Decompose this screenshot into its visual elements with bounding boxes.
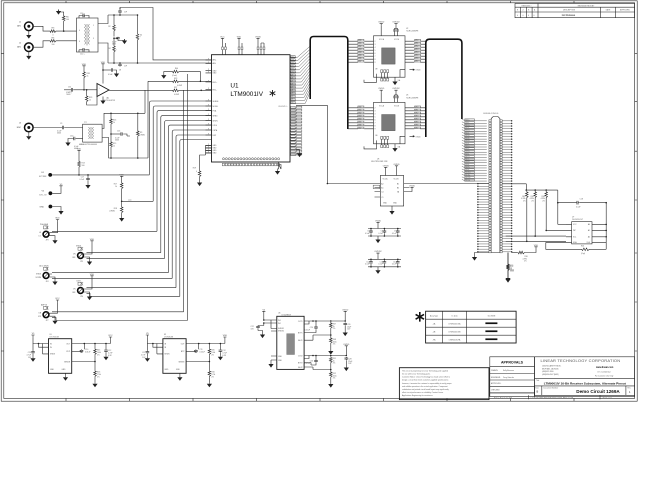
svg-text:3: 3 <box>375 44 376 46</box>
wire bundle jumpers to U1 control pins <box>149 74 211 321</box>
svg-text:Customer Notice: Linear Techno: Customer Notice: Linear Technology has m… <box>402 376 450 379</box>
svg-text:2%: 2% <box>211 376 214 378</box>
svg-text:(Opt): (Opt) <box>581 252 585 255</box>
capacitor C30 to ground <box>76 138 83 140</box>
svg-text:MILPITAS, CA 95035: MILPITAS, CA 95035 <box>542 367 559 370</box>
svg-text:0.1uF: 0.1uF <box>365 233 369 235</box>
capacitor C9 coupling <box>62 126 65 130</box>
ground for C22 <box>258 331 263 334</box>
resistor divider upper for U9 <box>209 343 211 345</box>
svg-text:VDD: VDD <box>55 218 60 220</box>
svg-text:VDD: VDD <box>237 36 242 38</box>
svg-text:100: 100 <box>82 165 85 167</box>
power flag for JP3 <box>56 220 59 222</box>
svg-text:OVDD: OVDD <box>378 88 385 90</box>
svg-text:U2: U2 <box>406 28 408 30</box>
svg-text:Document Number: Document Number <box>544 387 559 390</box>
approvals box <box>490 357 535 397</box>
wire OUT1 rail <box>313 320 331 322</box>
svg-text:JP6: JP6 <box>80 296 83 298</box>
output capacitor for U5 <box>105 344 107 350</box>
capacitor C6 <box>384 228 386 230</box>
bus wire U1 to buffers thick rounded <box>310 37 348 130</box>
svg-text:C8: C8 <box>119 70 121 72</box>
svg-text:ADJ2: ADJ2 <box>298 366 302 369</box>
svg-text:AIN: AIN <box>17 25 21 28</box>
svg-text:PGA GAIN: PGA GAIN <box>40 223 49 226</box>
output capacitor for U9 <box>219 344 221 350</box>
ground for U6 <box>268 363 273 368</box>
svg-text:for use with Linear Technology: for use with Linear Technology parts. <box>402 373 431 376</box>
disclaimer notice box <box>399 368 489 400</box>
svg-text:(Omit): (Omit) <box>172 74 177 77</box>
svg-text:1: 1 <box>93 25 94 27</box>
svg-text:A1: A1 <box>381 186 383 189</box>
svg-text:R2: R2 <box>108 26 110 28</box>
svg-text:VDD: VDD <box>120 174 125 176</box>
right pin stubs of U2 <box>405 39 421 62</box>
svg-text:8: 8 <box>375 125 376 127</box>
ground for output cap U5 <box>103 355 108 360</box>
wire J3 to C9 <box>33 127 61 129</box>
assembly option asterisk <box>416 312 424 322</box>
T2 output rails <box>102 113 148 158</box>
wire aux net 2 <box>52 277 172 279</box>
wire R6 to T1 <box>57 40 77 42</box>
capacitor C22 input <box>263 323 265 326</box>
svg-text:VCC: VCC <box>55 298 60 300</box>
svg-text:U6: U6 <box>278 313 280 315</box>
svg-text:0.1uF: 0.1uF <box>392 264 396 266</box>
svg-text:74LHC245MPR: 74LHC245MPR <box>406 31 419 33</box>
ground for C36 <box>114 72 119 77</box>
resistor R39 series ENC+ <box>148 80 172 82</box>
capacitor C17 <box>87 174 89 176</box>
capacitor C20 <box>343 323 347 326</box>
svg-text:9: 9 <box>375 62 376 64</box>
svg-text:DB7: DB7 <box>415 127 418 129</box>
svg-text:B1: B1 <box>397 183 399 185</box>
ground for U2 <box>394 77 396 80</box>
OE wire of U3 <box>364 140 377 149</box>
svg-text:LTM9001IV-PA: LTM9001IV-PA <box>449 339 461 342</box>
svg-text:0.1uF: 0.1uF <box>365 264 369 266</box>
power flag VDD for R38 <box>82 66 85 68</box>
bus join wires out of U3 right pins <box>420 108 426 129</box>
capacitor C31 input coupling <box>64 89 71 91</box>
turret E1 EXT REF <box>48 173 52 177</box>
turret V5 input power <box>49 191 53 195</box>
jumper JP6 DITH <box>72 280 87 298</box>
svg-text:VDD: VDD <box>534 245 539 247</box>
svg-text:0603: 0603 <box>115 140 119 142</box>
svg-text:SENSE: SENSE <box>178 362 185 364</box>
svg-text:LTM9001IV: LTM9001IV <box>230 91 263 98</box>
svg-text:(OMIT): (OMIT) <box>109 210 115 212</box>
svg-text:C9: C9 <box>60 123 62 125</box>
svg-text:OVDD: OVDD <box>255 36 262 38</box>
svg-text:2%: 2% <box>97 354 100 356</box>
revision history table <box>515 4 635 18</box>
wire R3 to T1 <box>57 30 77 32</box>
power flag VDD for R30 <box>534 247 537 249</box>
ground for cap row <box>377 267 379 269</box>
svg-text:ADJ1: ADJ1 <box>298 339 302 342</box>
wire J1 to R3 <box>33 26 49 31</box>
net label box on A2 wire <box>373 185 380 188</box>
svg-text:(408)432-1900: (408)432-1900 <box>542 371 554 373</box>
svg-text:3: 3 <box>375 110 376 112</box>
svg-text:OVDD: OVDD <box>416 136 422 138</box>
svg-text:0: 0 <box>517 15 518 17</box>
ground for cap row <box>377 236 379 238</box>
resistor divider lower for U9 <box>208 362 210 371</box>
svg-text:5: 5 <box>375 116 376 118</box>
power flag OVDD2 above U3 <box>394 90 397 92</box>
turret GND <box>49 205 53 209</box>
sheet outer border frame <box>1 1 637 401</box>
capacitor C1 <box>119 14 121 16</box>
resistor R16 <box>110 113 112 115</box>
svg-text:B: B <box>537 390 539 394</box>
svg-text:74LHC245MPR: 74LHC245MPR <box>406 97 419 99</box>
svg-text:2%: 2% <box>333 328 336 330</box>
svg-text:3.6V - 6V: 3.6V - 6V <box>39 194 47 196</box>
svg-text:ADC SHDN: ADC SHDN <box>39 264 49 267</box>
capacitor C13 <box>384 259 386 261</box>
capacitor C26 <box>315 356 317 360</box>
power flag V5 for U6 <box>262 311 265 313</box>
svg-text:Friday, August 27, 2021: Friday, August 27, 2021 <box>494 397 512 400</box>
svg-text:DA5: DA5 <box>358 54 361 57</box>
connector J4 left pad column <box>489 120 491 253</box>
IC U5 LDO regulator body <box>49 339 72 374</box>
bus peel wires into U2 left pins <box>348 41 358 62</box>
svg-text:0603: 0603 <box>67 94 71 96</box>
svg-text:0603: 0603 <box>57 133 61 135</box>
svg-text:DA5: DA5 <box>358 120 361 123</box>
wire CLKOUT net into U8 A2 <box>327 183 374 185</box>
input capacitor C23 for U5 <box>32 344 34 351</box>
IC U2 buffer 74LHC245 body <box>374 36 406 77</box>
svg-text:VCCB: VCCB <box>394 179 400 181</box>
svg-text:MULTIPLEXER #RIF: MULTIPLEXER #RIF <box>371 161 387 163</box>
power flags above U8 <box>384 167 387 169</box>
wire pull-up rail <box>526 189 558 191</box>
svg-text:6: 6 <box>375 53 376 55</box>
bus peel wires into U3 left pins <box>348 108 358 129</box>
svg-text:JP5: JP5 <box>80 261 83 263</box>
jumper JP5 SHDN <box>72 245 87 263</box>
wire aux net 4 <box>52 318 187 321</box>
ground for R48 <box>328 350 333 355</box>
svg-text:C16: C16 <box>117 131 120 133</box>
ground for J1 <box>26 34 31 39</box>
wire dither net <box>122 200 154 202</box>
svg-text:VDD: VDD <box>77 148 82 150</box>
U8 right pin stubs <box>404 184 410 192</box>
ground above R5 <box>56 10 61 15</box>
svg-text:DA6: DA6 <box>358 123 361 126</box>
ground for U1 right pins <box>296 150 300 152</box>
svg-text:Size: Size <box>535 388 538 390</box>
svg-text:9: 9 <box>375 128 376 130</box>
svg-text:OVDD2: OVDD2 <box>392 22 400 24</box>
ground for C21 <box>344 366 349 371</box>
svg-text:2%: 2% <box>333 378 336 380</box>
svg-text:DA0: DA0 <box>358 105 361 108</box>
resistor R63 pull-up <box>545 189 547 191</box>
ground for op-amp <box>102 97 104 100</box>
title block Linear Technology <box>490 357 635 400</box>
capacitor C14 <box>397 259 399 261</box>
U7 left pin stubs <box>566 224 572 242</box>
svg-text:1k: 1k <box>89 99 91 101</box>
svg-text:SHDN2: SHDN2 <box>278 331 284 333</box>
sheet inner border frame <box>4 3 635 399</box>
wire JP5 net to bundle <box>87 252 161 254</box>
svg-text:SCL: SCL <box>573 237 576 239</box>
svg-text:REVISION HISTORY: REVISION HISTORY <box>578 5 595 7</box>
svg-text:REVISION #: REVISION # <box>522 5 532 7</box>
svg-text:LT1763CS8: LT1763CS8 <box>164 337 173 339</box>
svg-text:2%: 2% <box>524 261 527 263</box>
ground for output cap U9 <box>218 355 223 360</box>
svg-text:OVDD: OVDD <box>342 309 349 311</box>
svg-text:GND: GND <box>39 207 44 209</box>
ground for R52 <box>328 383 333 388</box>
ground for U9 <box>177 376 182 381</box>
svg-text:EXT REF: EXT REF <box>39 176 46 178</box>
OVDD arrow pin of U3 <box>400 136 405 144</box>
IC U1 LTM9001IV body <box>212 55 291 162</box>
wire C1 top to U1 AIN+ <box>120 8 212 60</box>
wire ENC+ rail up to series resistor <box>144 90 146 113</box>
power flag V5 from turret <box>52 188 61 193</box>
svg-text:6: 6 <box>375 119 376 121</box>
svg-text:C18: C18 <box>580 199 583 201</box>
horizontal resistor R30 to VDD on J4 pin <box>512 252 517 254</box>
svg-text:2: 2 <box>375 41 376 43</box>
power flag for JP6 <box>90 276 93 278</box>
svg-text:0.1uF: 0.1uF <box>378 264 382 266</box>
svg-text:Demo Circuit 1269A: Demo Circuit 1269A <box>576 389 620 394</box>
capacitor C21 <box>345 357 349 360</box>
svg-text:SHDN: SHDN <box>50 354 56 356</box>
input capacitor C27 for U9 <box>146 344 148 351</box>
svg-text:DA7: DA7 <box>358 60 361 63</box>
svg-text:DA7: DA7 <box>358 126 361 129</box>
svg-text:1k: 1k <box>87 75 89 77</box>
svg-text:C4: C4 <box>381 191 383 193</box>
svg-text:DB1: DB1 <box>415 109 418 111</box>
svg-text:VCCA: VCCA <box>379 104 385 107</box>
OVDD arrow pin of U2 <box>400 70 405 78</box>
U7 right pin stubs <box>592 224 606 242</box>
ground for JP3 <box>52 236 55 239</box>
bottom pins of U2 <box>381 70 383 73</box>
resistor R18 dither lower <box>120 206 123 214</box>
power flag for JP5 <box>90 241 93 243</box>
svg-text:VCCA: VCCA <box>379 38 385 41</box>
border zone tick marks <box>1 1 637 401</box>
capacitor C24 <box>315 321 317 326</box>
ground for U5 <box>63 376 68 381</box>
resistor R46 shunt with ground <box>172 70 180 73</box>
svg-text:OVDD: OVDD <box>393 164 400 166</box>
svg-text:MABA-007159-000000: MABA-007159-000000 <box>79 143 97 146</box>
power flag OVDD out2 <box>345 346 348 348</box>
svg-text:J4 EDGE-CON-100: J4 EDGE-CON-100 <box>483 113 498 115</box>
bus join wires out of U2 right pins <box>420 41 426 62</box>
resistor divider upper for U5 <box>94 343 96 345</box>
wire JP3 net to bundle <box>52 230 157 232</box>
svg-text:SHDN: SHDN <box>164 354 170 356</box>
svg-text:design a circuit that meets cu: design a circuit that meets customer-sup… <box>402 379 449 382</box>
power flag for JP7 <box>56 300 59 302</box>
svg-text:0.1uF: 0.1uF <box>392 233 396 235</box>
OE wire of U2 <box>364 74 377 83</box>
svg-text:2%: 2% <box>333 363 336 365</box>
svg-text:LT1763CS8: LT1763CS8 <box>50 337 59 339</box>
svg-text:Sheet 1 of 1: Sheet 1 of 1 <box>603 397 612 400</box>
capacitor C10 on T1 bottom <box>82 48 85 52</box>
svg-text:Rev: Rev <box>628 388 631 390</box>
svg-text:OVDD: OVDD <box>343 344 350 346</box>
svg-text:OVDD: OVDD <box>375 220 382 222</box>
svg-text:0: 0 <box>534 15 535 17</box>
wire mux output B1 to J4 pad <box>410 183 489 185</box>
wire E1 net <box>52 174 149 176</box>
ground for R19 <box>199 178 201 182</box>
power flag VDD for op-amp <box>101 64 104 66</box>
svg-text:OVDD: OVDD <box>378 22 385 24</box>
svg-text:however, it remains the custom: however, it remains the customer's respo… <box>402 382 452 385</box>
svg-text:24LC025-I/ST: 24LC025-I/ST <box>572 219 584 221</box>
svg-text:affect circuit performance or: affect circuit performance or reliabilit… <box>402 391 444 394</box>
wire VCC row <box>558 223 566 225</box>
svg-text:IN2: IN2 <box>278 323 281 325</box>
svg-text:This circuit is proprietary to: This circuit is proprietary to Linear Te… <box>402 369 448 372</box>
svg-text:0.1uF: 0.1uF <box>576 207 580 209</box>
svg-text:A2: A2 <box>381 182 383 185</box>
U6 GND pins <box>271 356 277 363</box>
resistor divider lower for U5 <box>94 362 96 371</box>
IC U2 thermal pad <box>382 48 396 64</box>
ground for U8 <box>389 210 394 215</box>
svg-text:APPROVED: APPROVED <box>620 9 630 12</box>
svg-text:2%: 2% <box>333 344 336 346</box>
capacitor C13 on T1 top <box>82 14 85 18</box>
svg-text:JP7: JP7 <box>45 320 48 322</box>
U1 bottom GND pad boxes row <box>222 163 279 166</box>
svg-text:2%: 2% <box>97 376 100 378</box>
svg-text:2%: 2% <box>542 201 545 203</box>
svg-text:VDD: VDD <box>101 62 106 64</box>
svg-text:VCC: VCC <box>108 335 113 337</box>
svg-text:0.01uF: 0.01uF <box>305 363 310 365</box>
resistor R52 <box>329 371 332 378</box>
svg-text:www.linear.com: www.linear.com <box>596 367 613 369</box>
svg-text:VCCB: VCCB <box>394 105 400 107</box>
connector J4 left lower stubs with dots <box>477 183 489 253</box>
ground for JP7 <box>52 316 55 319</box>
svg-text:+: + <box>99 88 100 90</box>
svg-text:0.05W: 0.05W <box>177 85 182 87</box>
svg-text:DB4: DB4 <box>415 118 418 120</box>
svg-text:3: 3 <box>93 38 94 40</box>
bypass capacitor C11 for U9 <box>186 350 196 352</box>
svg-text:1k: 1k <box>115 186 117 188</box>
assembly option table <box>426 311 516 343</box>
svg-text:1nF: 1nF <box>124 12 127 14</box>
ground for R29 <box>507 271 509 277</box>
wire JP7 net to bundle <box>52 311 184 313</box>
svg-text:DB5: DB5 <box>415 121 418 123</box>
svg-text:IN1: IN1 <box>278 320 281 322</box>
U1 bottom pin number circles row <box>222 158 279 162</box>
ground for divider U5 <box>92 382 97 387</box>
svg-text:4: 4 <box>79 30 80 32</box>
resistor R6 <box>49 40 57 43</box>
svg-text:MODE: MODE <box>213 106 219 108</box>
resistor R48 <box>329 337 332 344</box>
svg-text:BYP2: BYP2 <box>298 362 303 364</box>
svg-text:0.05W: 0.05W <box>174 94 179 96</box>
capacitor C8 <box>119 62 121 64</box>
resistor R47 <box>330 320 332 322</box>
svg-text:OFF: OFF <box>72 257 76 259</box>
svg-text:0: 0 <box>528 15 529 17</box>
cap row rail <box>368 259 401 267</box>
svg-text:8: 8 <box>375 59 376 61</box>
U6 right pin stubs lower <box>304 356 313 368</box>
svg-text:2%: 2% <box>211 354 214 356</box>
ground for U1 bottom pads <box>277 162 281 169</box>
IC U8 multiplexer body <box>380 176 403 207</box>
resistor R37 series ENC- <box>145 89 172 91</box>
U1 right upper pin stubs with pin-number boxes <box>290 56 296 104</box>
svg-text:LT3029EDE: LT3029EDE <box>282 314 292 316</box>
svg-text:LTC Confidential: LTC Confidential <box>598 371 612 374</box>
connector J4 right pad column <box>500 120 502 253</box>
svg-text:VDD: VDD <box>90 274 95 276</box>
wire WP row <box>546 229 566 231</box>
svg-text:SHDN: SHDN <box>213 120 219 122</box>
ground for R18 <box>119 217 124 222</box>
svg-text:2%: 2% <box>523 201 526 203</box>
wire aux net 1 <box>87 257 165 259</box>
svg-text:VCCA: VCCA <box>383 178 389 181</box>
ground for U3 <box>394 144 396 147</box>
svg-text:0: 0 <box>53 35 54 37</box>
resistor R4 bias <box>113 38 115 45</box>
svg-text:0.1uF: 0.1uF <box>80 179 84 181</box>
ground for J4 <box>475 253 489 256</box>
svg-text:DB1: DB1 <box>415 43 418 45</box>
svg-text:DRAWN:: DRAWN: <box>491 369 499 372</box>
svg-text:DB2: DB2 <box>415 112 418 114</box>
svg-text:DB0: DB0 <box>415 40 418 42</box>
svg-text:1k: 1k <box>113 145 115 147</box>
ground for C30 <box>68 139 73 142</box>
ground for C23 <box>32 354 34 357</box>
svg-text:DA1: DA1 <box>358 42 361 45</box>
svg-text:For Customer Use Only: For Customer Use Only <box>595 374 614 377</box>
svg-text:2: 2 <box>375 107 376 109</box>
transformer T1 <box>77 16 99 52</box>
ground for C17 <box>87 181 89 184</box>
